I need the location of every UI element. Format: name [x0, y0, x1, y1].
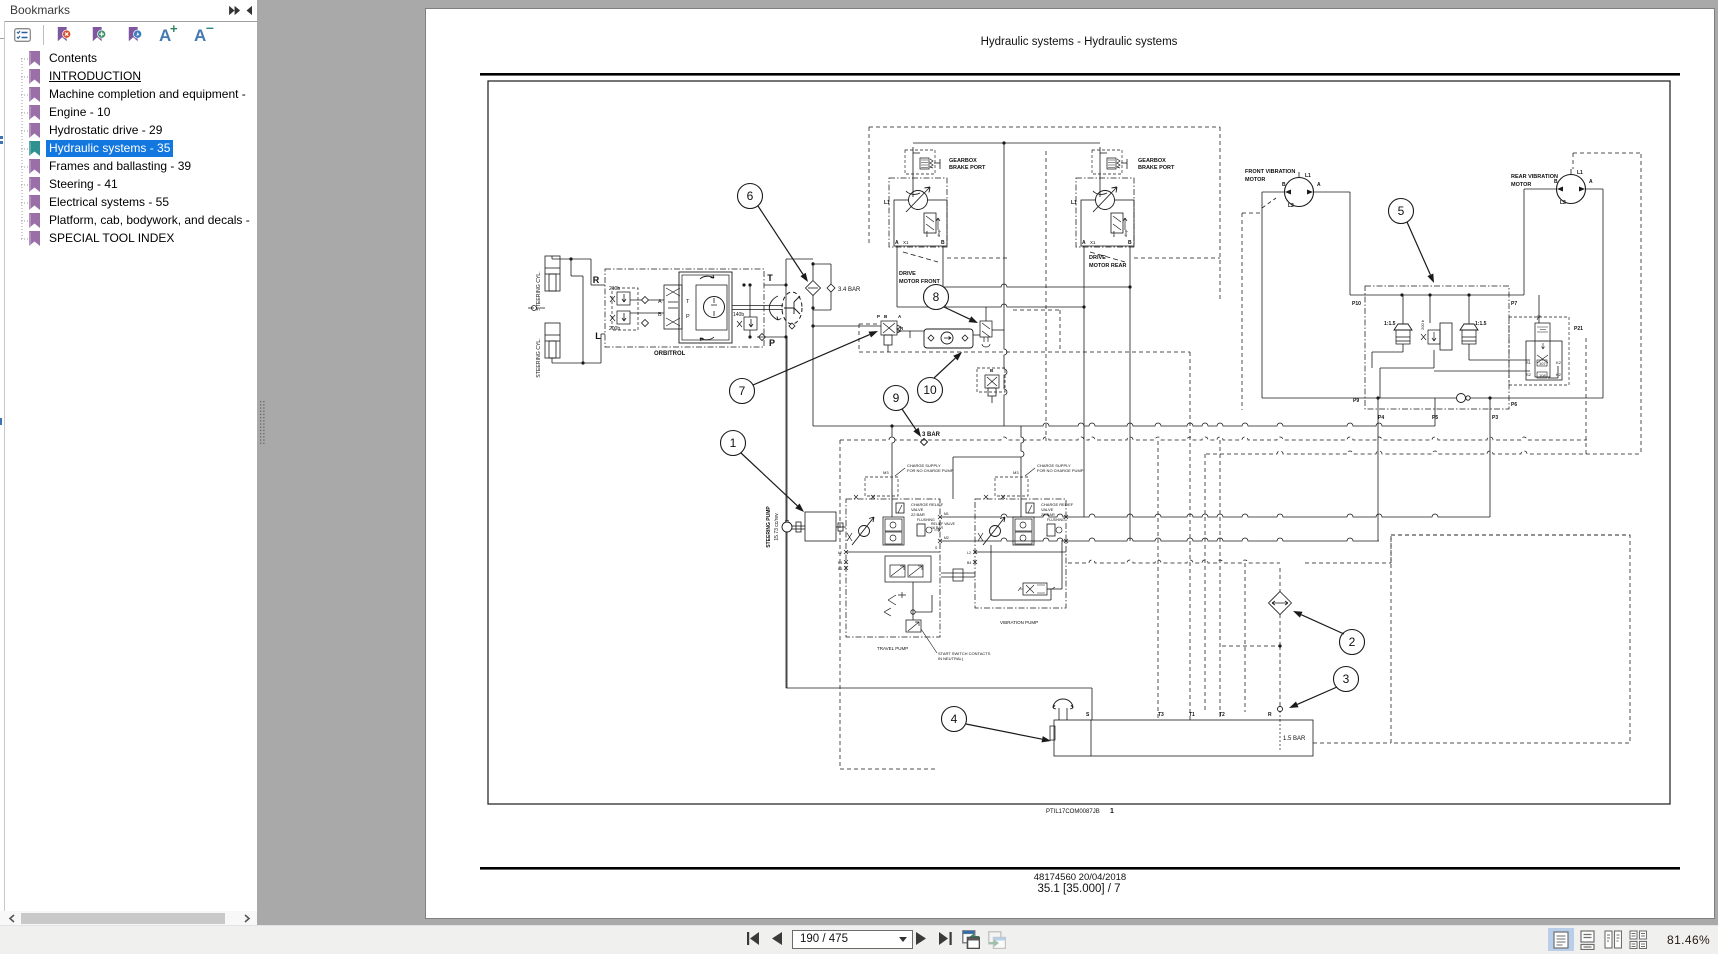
svg-text:BRAKE PORT: BRAKE PORT	[949, 165, 986, 171]
svg-text:L2: L2	[967, 551, 971, 555]
dashed riser mid	[1204, 454, 1206, 712]
svg-text:108: 108	[1539, 373, 1546, 378]
drive motor front circle	[909, 191, 928, 210]
node callout 3	[1334, 667, 1359, 692]
brake stem rear	[1099, 147, 1101, 197]
svg-text:1: 1	[730, 436, 737, 450]
svg-text:DRIVE: DRIVE	[1089, 255, 1106, 261]
svg-text:107: 107	[1539, 361, 1546, 366]
svg-text:M1: M1	[944, 512, 949, 516]
svg-text:R: R	[593, 275, 600, 285]
svg-text:P4: P4	[1378, 415, 1384, 421]
panel toolbar icons	[14, 28, 31, 42]
svg-text:K2: K2	[1556, 372, 1562, 377]
manifold check valve	[1457, 394, 1466, 403]
vibration pump swash	[990, 526, 1001, 537]
svg-text:48174560 20/04/2018: 48174560 20/04/2018	[1034, 872, 1126, 883]
node callout 10	[918, 378, 943, 403]
wire long return to tank	[785, 285, 787, 688]
wire servo down	[912, 582, 914, 620]
svg-text:L1: L1	[1577, 170, 1583, 176]
shuttle valve (callout 8)	[980, 321, 992, 337]
svg-text:STEERING CYL.: STEERING CYL.	[536, 271, 542, 311]
bottom toolbar	[0, 925, 1718, 954]
node callout 8	[924, 285, 949, 310]
dashed box rear vib	[1573, 152, 1641, 154]
wire orbitrol T out	[764, 284, 786, 286]
wire charge bus y517	[941, 514, 1490, 517]
svg-text:min: min	[925, 231, 929, 237]
vibration prop valve	[1023, 583, 1047, 595]
svg-text:7: 7	[739, 384, 746, 398]
svg-text:L2: L2	[1560, 200, 1566, 206]
svg-text:MOTOR: MOTOR	[1245, 177, 1265, 183]
wire pump suction	[786, 337, 788, 521]
svg-text:35.1 [35.000] / 7: 35.1 [35.000] / 7	[1037, 883, 1120, 895]
dashed stub to filter	[1222, 645, 1280, 647]
svg-text:FOR NO CHARGE PUMP: FOR NO CHARGE PUMP	[1037, 468, 1084, 473]
svg-text:B3: B3	[838, 567, 842, 571]
wire valve7 to flow switch	[897, 330, 924, 332]
hydraulic tank	[1054, 720, 1313, 756]
svg-text:M2: M2	[944, 536, 949, 540]
travel feedback levers	[888, 592, 906, 605]
svg-text:FOR NO CHARGE PUMP: FOR NO CHARGE PUMP	[907, 468, 954, 473]
svg-text:B: B	[1282, 182, 1286, 188]
wire vibration pump feed	[1021, 426, 1024, 517]
svg-text:L2: L2	[1288, 203, 1294, 209]
wire rear vib B	[1524, 188, 1557, 190]
collapse arrows top-right of panel	[228, 5, 254, 16]
node callout 4	[942, 707, 967, 732]
svg-text:3: 3	[1343, 672, 1350, 686]
wire orbitrol internal B	[630, 312, 664, 314]
drive motor rear housing	[1081, 200, 1134, 246]
dashed link rear motor	[1090, 252, 1125, 262]
port x marks vibration	[984, 495, 988, 499]
wire to shuttle valve	[973, 334, 980, 336]
displacement control rear	[1111, 213, 1123, 233]
svg-text:MOTOR REAR: MOTOR REAR	[1089, 263, 1127, 269]
node callout 6	[738, 184, 763, 209]
node callout 9	[884, 386, 909, 411]
svg-text:B: B	[990, 368, 994, 373]
svg-text:T: T	[767, 273, 773, 283]
travel pump enclosure	[846, 499, 940, 637]
bookmark tree (static)	[21, 54, 31, 244]
svg-text:2: 2	[1349, 635, 1356, 649]
svg-text:FRONT VIBRATION: FRONT VIBRATION	[1245, 169, 1295, 175]
wire rear vib A	[1602, 189, 1604, 398]
svg-text:A: A	[1082, 240, 1086, 246]
steering wheel	[782, 292, 802, 324]
splitter dot handle	[260, 401, 265, 446]
page display mode icons	[1548, 928, 1574, 951]
filter 3.4 BAR diamond	[806, 281, 821, 296]
steering cylinder top	[545, 256, 560, 291]
svg-text:T1: T1	[1189, 712, 1195, 718]
wire cylinders to orbitrol R	[552, 258, 591, 260]
svg-text:S1: S1	[1526, 360, 1532, 365]
svg-text:200b: 200b	[609, 326, 620, 332]
wire pump top link	[953, 456, 1021, 458]
steering column shaft	[732, 305, 783, 307]
tank internal return	[1279, 720, 1281, 750]
svg-text:16 BAR: 16 BAR	[931, 526, 944, 530]
wire front motor A down	[896, 246, 898, 307]
axle centerline	[528, 307, 545, 309]
manifold bottom line	[1262, 397, 1603, 399]
dashed riser P21	[1585, 338, 1587, 454]
svg-text:P10: P10	[1352, 301, 1361, 307]
charge relief valve 25 bar	[1026, 503, 1034, 513]
wire rear motor B down	[1129, 246, 1131, 287]
wire front motor B down	[942, 246, 944, 287]
svg-text:P: P	[769, 338, 775, 348]
svg-text:FLUSHING: FLUSHING	[1047, 518, 1065, 522]
drive motor front enclosure (dash-dot)	[889, 178, 947, 247]
svg-text:A: A	[895, 240, 899, 246]
svg-text:TRAVEL PUMP: TRAVEL PUMP	[877, 646, 908, 651]
dashed box mid	[1059, 310, 1061, 352]
svg-text:L2: L2	[838, 551, 842, 555]
wire filter down to pump feed bus	[812, 326, 814, 426]
gearbox brake rear	[1107, 158, 1116, 169]
charge relief valve 22 bar	[896, 503, 904, 513]
gerotor metering unit	[679, 272, 732, 343]
svg-text:10: 10	[923, 383, 937, 397]
bottom rule	[480, 867, 1680, 870]
clipped side-tab icons at far left edge	[0, 136, 3, 139]
svg-text:STEERING PUMP: STEERING PUMP	[766, 506, 772, 548]
svg-text:P: P	[686, 314, 690, 320]
svg-text:4: 4	[951, 712, 958, 726]
svg-text:B: B	[1554, 179, 1558, 185]
dashed bus y454	[1206, 451, 1641, 454]
dashed link front motor	[903, 252, 938, 262]
svg-text:3.4 BAR: 3.4 BAR	[838, 287, 861, 293]
steering pump	[805, 512, 836, 541]
wire filter riser	[1279, 568, 1281, 592]
svg-text:L1: L1	[884, 200, 890, 206]
dashed riser right	[1244, 563, 1246, 712]
nav arrows	[746, 931, 761, 946]
brake stem front	[912, 147, 914, 197]
wire orbitrol internal A	[630, 299, 664, 301]
svg-text:X1: X1	[903, 240, 909, 245]
svg-text:M3: M3	[883, 470, 889, 475]
svg-text:P7: P7	[1511, 301, 1517, 307]
svg-text:IN NEUTRAL): IN NEUTRAL)	[938, 656, 964, 661]
svg-text:A: A	[1317, 182, 1321, 188]
svg-text:25 BAR: 25 BAR	[1041, 512, 1055, 517]
svg-text:1:1.5: 1:1.5	[1384, 321, 1396, 327]
svg-text:200 b: 200 b	[1420, 319, 1425, 330]
wire brake feed bus	[913, 142, 1100, 144]
svg-text:min: min	[1112, 231, 1116, 237]
svg-text:8: 8	[933, 290, 940, 304]
svg-text:3 BAR: 3 BAR	[922, 432, 941, 438]
svg-text:R: R	[900, 326, 904, 331]
svg-text:B: B	[1128, 240, 1132, 246]
svg-text:ORBITROL: ORBITROL	[654, 351, 686, 357]
return filter diamond	[1269, 592, 1292, 615]
vibration flushing valve	[1047, 524, 1055, 536]
svg-text:GEARBOX: GEARBOX	[1138, 158, 1166, 164]
svg-text:22 BAR: 22 BAR	[911, 512, 925, 517]
svg-text:GEARBOX: GEARBOX	[949, 158, 977, 164]
svg-text:A: A	[658, 299, 662, 305]
wire rear motor A down	[1083, 246, 1085, 307]
svg-text:A: A	[898, 314, 902, 319]
solenoid dashed box	[1509, 317, 1569, 385]
wire rear vib A link	[1585, 188, 1603, 190]
dashed riser T3	[1157, 441, 1159, 720]
svg-text:L: L	[595, 331, 601, 341]
wire brake feed down	[1004, 143, 1007, 426]
vibration manifold enclosure	[1365, 286, 1509, 409]
wire manifold to solenoid	[1538, 295, 1540, 323]
displacement control front	[924, 213, 936, 233]
svg-text:P9: P9	[1353, 398, 1359, 404]
svg-text:L1: L1	[1071, 200, 1077, 206]
A+ / A- icons	[159, 26, 171, 46]
node callout 7	[730, 379, 755, 404]
gearbox brake front	[920, 158, 929, 169]
steering spool valve	[664, 285, 682, 329]
valve B dashed box	[977, 368, 1005, 392]
wire front vib B	[1261, 192, 1263, 398]
svg-text:P3: P3	[1492, 415, 1498, 421]
solenoid valve block P21	[1526, 341, 1562, 380]
manifold top line	[1350, 294, 1524, 296]
travel solenoid	[906, 620, 921, 632]
svg-text:B4: B4	[838, 561, 842, 565]
svg-text:L1: L1	[1305, 173, 1311, 179]
vibration pump units	[1013, 517, 1034, 545]
svg-text:1.5 BAR: 1.5 BAR	[1283, 736, 1306, 742]
svg-text:K2: K2	[1556, 360, 1562, 365]
dashed box under manifold	[1391, 535, 1630, 743]
steering cylinder bottom	[545, 323, 560, 358]
svg-text:140b: 140b	[733, 312, 744, 318]
node callout 2	[1340, 630, 1365, 655]
dashed wire around valve group	[859, 351, 1190, 353]
PDF page content SVG goes here	[425, 8, 1715, 919]
drive motor rear enclosure (dash-dot)	[1076, 178, 1134, 247]
pump drive shaft	[941, 572, 975, 574]
pump circuit dashed box	[839, 440, 841, 769]
drive motor rear circle	[1096, 191, 1115, 210]
previous view icon	[962, 930, 980, 949]
svg-text:MOTOR: MOTOR	[1511, 182, 1531, 188]
vibration L-line	[975, 551, 1066, 553]
svg-text:5: 5	[1398, 204, 1405, 218]
wire vibration loop	[990, 545, 992, 600]
svg-text:15.73 cc/rev: 15.73 cc/rev	[774, 513, 780, 541]
drive circuit dashed box	[868, 127, 870, 245]
wire bus y307	[897, 304, 1084, 307]
node callout 5	[1389, 199, 1414, 224]
flow switch (callout 10)	[924, 329, 973, 348]
wire bus y287	[943, 284, 1130, 287]
next view icon (disabled)	[988, 931, 1006, 949]
svg-text:P: P	[877, 314, 880, 319]
svg-text:PTIL17COM0087JB: PTIL17COM0087JB	[1046, 809, 1100, 815]
svg-text:B: B	[884, 314, 888, 319]
tank breather	[1058, 708, 1060, 720]
svg-text:B: B	[941, 240, 945, 246]
dashed bus y563	[1068, 560, 1280, 563]
dashed vertical drive to bus	[1045, 151, 1047, 441]
svg-text:A: A	[1589, 179, 1593, 185]
front vibration motor	[1285, 178, 1314, 207]
svg-text:T: T	[686, 299, 690, 305]
vibration pump enclosure	[975, 499, 1066, 608]
svg-text:S2: S2	[1526, 372, 1532, 377]
port x marks travel	[854, 495, 858, 499]
relief valve 210b	[617, 292, 630, 305]
travel servo block	[885, 556, 931, 582]
brake dash box front	[905, 150, 935, 174]
travel pump units	[883, 517, 904, 545]
rotation arrow top	[700, 275, 714, 279]
drive motor front housing	[894, 200, 947, 246]
wire y326 to valve7	[813, 325, 881, 327]
svg-text:S: S	[935, 546, 938, 550]
svg-text:9: 9	[893, 391, 900, 405]
svg-text:disp.: disp.	[937, 229, 941, 237]
wire cylinders to orbitrol L	[552, 362, 601, 364]
check valve bypass	[827, 284, 835, 292]
node callout 1	[721, 431, 746, 456]
svg-text:P21: P21	[1574, 326, 1583, 332]
svg-text:S: S	[1086, 712, 1090, 718]
dashed link front vib	[1262, 198, 1276, 208]
small drain diamond	[759, 334, 766, 341]
svg-text:B4: B4	[967, 561, 971, 565]
svg-text:1: 1	[1110, 808, 1114, 815]
manifold inner wires	[1379, 368, 1381, 398]
check diamonds	[642, 297, 649, 304]
travel pump swash	[859, 526, 870, 537]
svg-text:VIBRATION PUMP: VIBRATION PUMP	[1000, 620, 1038, 625]
svg-text:210b: 210b	[609, 286, 620, 292]
travel L-line	[846, 551, 940, 553]
charge supply dashdot box	[865, 477, 898, 496]
manifold stubs down	[1377, 398, 1379, 541]
panel horizontal scrollbar	[0, 911, 257, 925]
relief valve 200b	[617, 311, 630, 324]
svg-text:M3: M3	[1013, 470, 1019, 475]
svg-text:1:1.5: 1:1.5	[1475, 321, 1487, 327]
schematic frame	[488, 81, 1670, 804]
wire filter junction	[785, 259, 787, 285]
dashed link manifold right	[1390, 535, 1392, 563]
rear vibration motor	[1557, 175, 1586, 204]
svg-text:disp.: disp.	[1124, 229, 1128, 237]
orbitrol enclosure	[605, 269, 764, 347]
wire travel pump feed	[892, 426, 895, 517]
svg-text:T3: T3	[1158, 712, 1164, 718]
wire main pressure bus y426	[813, 423, 1435, 426]
wire T down to filter	[812, 262, 814, 280]
wire cylinder cross link	[570, 259, 572, 276]
svg-text:Hydraulic systems - Hydraulic: Hydraulic systems - Hydraulic systems	[981, 36, 1178, 48]
flushing relief valve	[917, 524, 925, 536]
bookmark-action icons	[56, 27, 72, 43]
dashed riser T2	[1219, 440, 1221, 720]
svg-text:DRIVE: DRIVE	[899, 271, 916, 277]
svg-text:R: R	[1268, 712, 1272, 718]
vibration charge supply box	[995, 477, 1028, 496]
bookmarks navigation panel	[0, 0, 257, 925]
svg-text:X1: X1	[1090, 240, 1096, 245]
relief valves dashed box	[612, 288, 638, 330]
svg-text:6: 6	[747, 189, 754, 203]
top rule	[480, 73, 1680, 76]
dashed right vertical x1641	[1640, 154, 1642, 454]
svg-text:P6: P6	[1511, 402, 1517, 408]
svg-text:STEERING CYL.: STEERING CYL.	[536, 338, 542, 378]
wire front vib A	[1313, 191, 1350, 193]
svg-text:T2: T2	[1219, 712, 1225, 718]
brake dash box rear	[1092, 150, 1122, 174]
wire charge bus y541	[941, 538, 1379, 541]
dashed riser T1	[1189, 352, 1191, 720]
svg-text:E: E	[1537, 314, 1540, 319]
wire orbitrol P out	[757, 336, 786, 338]
rotation arrow bottom	[700, 337, 714, 341]
document pane background	[425, 8, 1715, 919]
svg-text:B: B	[658, 312, 662, 318]
dashed bus y440	[840, 437, 1587, 440]
svg-text:BRAKE PORT: BRAKE PORT	[1138, 165, 1175, 171]
svg-text:REAR VIBRATION: REAR VIBRATION	[1511, 174, 1558, 180]
